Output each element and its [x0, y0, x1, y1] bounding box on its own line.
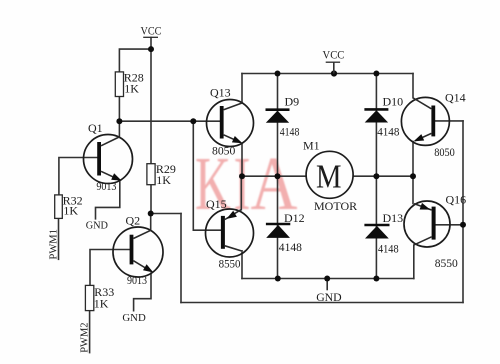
svg-text:MOTOR: MOTOR	[314, 199, 357, 213]
watermark KIA	[195, 141, 298, 226]
transistor Q16	[404, 193, 466, 270]
node D10 top junction	[373, 71, 379, 77]
wire top rail VCC	[242, 73, 413, 75]
ground below Q2	[122, 312, 145, 324]
transistor Q1	[84, 121, 133, 193]
power VCC left	[141, 24, 162, 38]
node Q14 emitter junction	[410, 173, 416, 179]
svg-text:1K: 1K	[63, 204, 78, 218]
wire R29 to Q2 collector node	[150, 185, 152, 214]
node D13 bottom junction	[373, 276, 379, 282]
node Q2 collector junction	[148, 211, 154, 217]
node VCC left junction	[148, 46, 154, 52]
wire Q1 collector	[118, 121, 120, 137]
wire D12 branch	[277, 176, 279, 278]
svg-text:1K: 1K	[124, 82, 139, 96]
svg-text:Q13: Q13	[210, 86, 231, 100]
svg-text:M1: M1	[303, 139, 320, 153]
transistor Q13	[207, 86, 254, 158]
node motor left junction	[239, 173, 245, 179]
port PWM1	[49, 229, 60, 259]
wire Q13 emitter to motor row	[241, 143, 243, 176]
svg-text:VCC: VCC	[141, 24, 162, 38]
svg-text:8050: 8050	[434, 145, 455, 159]
node D12 top junction	[275, 173, 281, 179]
svg-text:8550: 8550	[219, 256, 241, 270]
motor M1	[303, 139, 357, 214]
svg-text:1K: 1K	[94, 296, 109, 310]
wire D10 branch	[375, 74, 377, 177]
wire Q1 emitter to ground	[96, 180, 120, 219]
svg-text:4148: 4148	[280, 125, 300, 139]
wire Q13 base to Q15 base	[193, 121, 221, 230]
wire Q13 collector to rail	[241, 74, 243, 104]
svg-text:4148: 4148	[279, 240, 302, 254]
node motor right junction	[373, 173, 379, 179]
wire Q14 emitter to motor row	[412, 142, 414, 177]
wire Q2 base to R33	[90, 250, 130, 286]
transistor Q14	[401, 90, 465, 159]
port PWM2	[80, 322, 91, 352]
wire bottom rail	[242, 278, 414, 280]
diode D12	[266, 211, 305, 254]
svg-text:M: M	[316, 158, 342, 195]
wire Q14 collector to rail	[412, 74, 414, 98]
svg-text:PWM2: PWM2	[80, 322, 91, 352]
svg-text:D10: D10	[383, 94, 404, 108]
wire motor left row	[242, 175, 307, 177]
node D12 bottom junction	[275, 276, 281, 282]
node Q16 base junction	[460, 222, 466, 228]
svg-text:GND: GND	[316, 290, 342, 304]
node Q1 collector junction	[116, 118, 122, 124]
wire Q15 collector to bottom rail	[241, 251, 243, 279]
resistor R33	[85, 285, 114, 310]
svg-text:Q2: Q2	[126, 213, 141, 227]
wire Q16 emitter to motor row	[412, 176, 414, 203]
svg-text:4148: 4148	[378, 241, 399, 255]
node GND bottom junction	[324, 276, 330, 282]
wire D13 branch	[375, 176, 377, 278]
svg-text:9013: 9013	[127, 273, 147, 287]
svg-text:1K: 1K	[156, 173, 171, 187]
wire outer bottom return	[181, 302, 463, 304]
wire R28 to Q1 collector node	[118, 97, 120, 122]
wire VCC left column	[150, 38, 152, 164]
transistor Q15	[206, 197, 254, 270]
svg-text:D13: D13	[383, 211, 404, 225]
svg-text:Q15: Q15	[206, 197, 227, 211]
diode D9	[266, 94, 300, 138]
diode D10	[364, 94, 403, 138]
wire Q1 base to R32	[59, 158, 97, 195]
ground bottom	[316, 290, 342, 304]
svg-text:GND: GND	[86, 219, 108, 231]
node Q13 base junction	[190, 118, 196, 124]
power VCC top	[323, 48, 345, 74]
wire Q2 collector node to riser	[151, 213, 181, 215]
wire Q16 collector to bottom rail	[413, 245, 415, 279]
svg-text:Q16: Q16	[446, 193, 467, 207]
wire D9 branch	[277, 74, 279, 177]
resistor R28	[115, 71, 144, 97]
svg-text:PWM1: PWM1	[49, 229, 60, 259]
wire Q14 base lead	[435, 120, 463, 122]
diode D13	[364, 211, 403, 256]
wire R33 to PWM2	[89, 311, 91, 353]
resistor R29	[147, 162, 176, 187]
node D9 top junction	[275, 71, 281, 77]
wire Q15 emitter to motor row	[240, 176, 242, 210]
svg-text:Q1: Q1	[88, 121, 103, 135]
wire VCC junction to R28	[119, 49, 151, 72]
svg-text:4148: 4148	[377, 125, 399, 139]
svg-text:Q14: Q14	[445, 90, 466, 104]
wire motor right row	[353, 175, 413, 177]
svg-text:D9: D9	[285, 94, 300, 108]
wire Q1 collector node to Q13 base	[119, 120, 219, 122]
wire right base column	[462, 121, 464, 303]
wire Q16 base lead	[436, 224, 463, 226]
svg-text:8050: 8050	[212, 143, 235, 157]
wire bottom GND stub	[326, 279, 328, 290]
ground below Q1	[86, 219, 108, 231]
svg-text:VCC: VCC	[323, 48, 345, 62]
wire Q2 emitter to ground	[134, 273, 151, 311]
wire left return riser	[180, 214, 182, 303]
transistor Q2	[113, 213, 163, 287]
svg-text:D12: D12	[284, 211, 305, 225]
wire Q2 collector	[150, 214, 152, 231]
svg-text:8550: 8550	[435, 256, 458, 270]
node VCC top junction	[331, 70, 337, 76]
wire R32 to PWM1	[58, 218, 60, 259]
svg-text:9013: 9013	[96, 179, 116, 193]
resistor R32	[55, 193, 83, 218]
svg-text:GND: GND	[122, 312, 145, 324]
